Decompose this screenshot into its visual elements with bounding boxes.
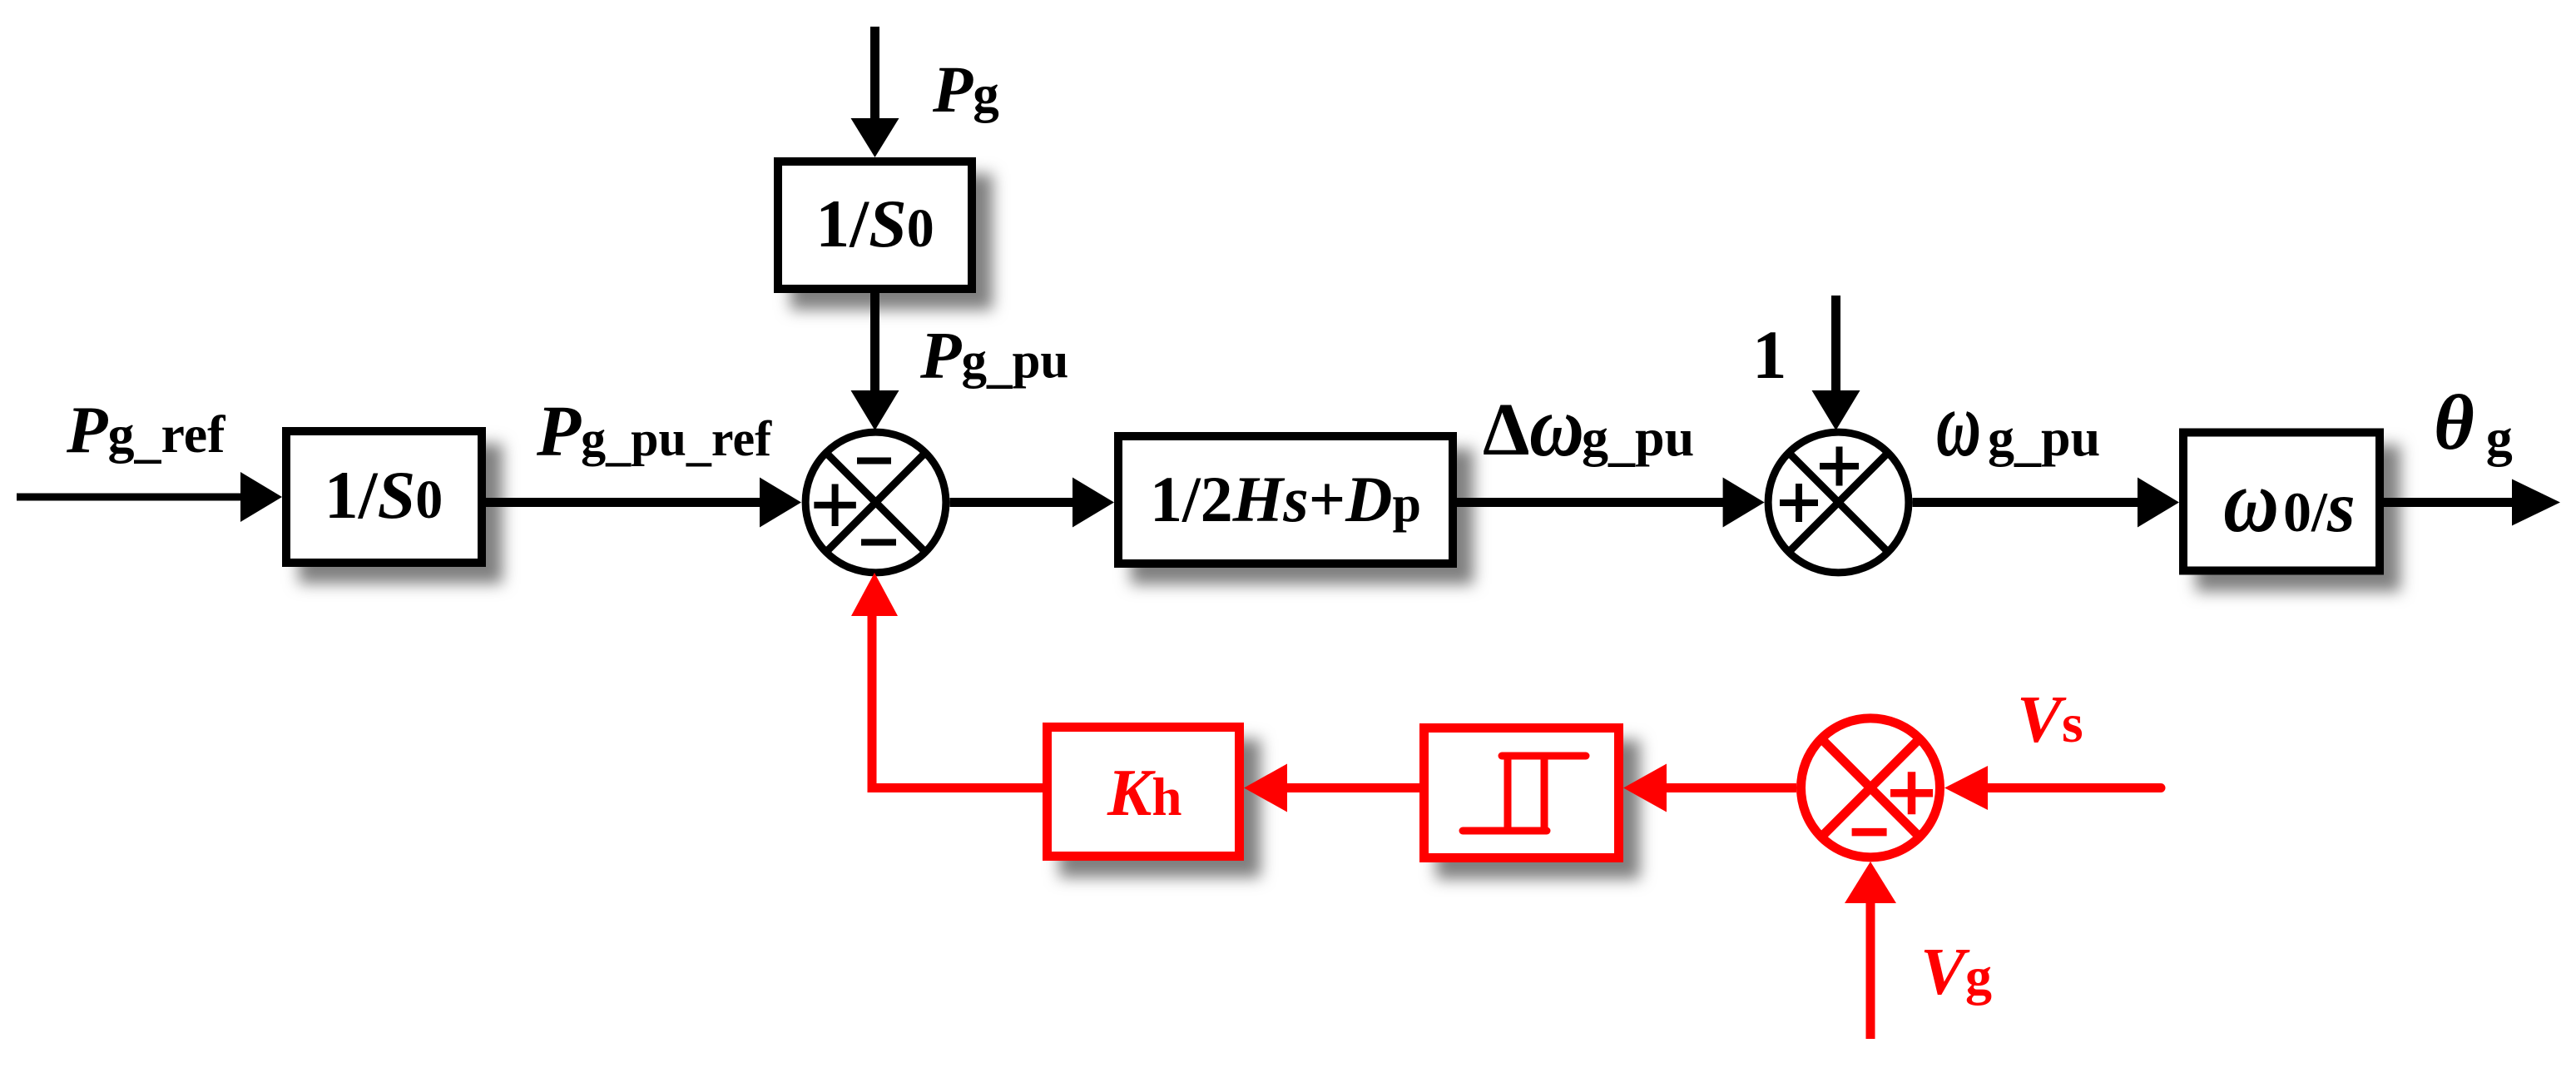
block 1/S0 (top)	[778, 161, 972, 289]
red summing junction S3 (Vs + / Vg -)	[1801, 718, 1940, 857]
red arrowhead into S1 bottom	[851, 573, 898, 616]
arrowhead into block omega0/s	[2138, 478, 2179, 528]
red wire S3 to relay	[1667, 783, 1796, 792]
svg-text:Pg_pu: Pg_pu	[919, 318, 1068, 394]
wire Pg_pu_ref	[486, 498, 762, 507]
svg-text:Pg: Pg	[932, 54, 999, 127]
wire Pg_pu	[870, 293, 879, 390]
red wire Vs input	[1988, 783, 2161, 792]
wire delta-omega g_pu	[1457, 498, 1725, 507]
svg-text:Δ: Δ	[1483, 389, 1529, 471]
arrowhead into block 1/S0 (left)	[240, 472, 282, 522]
svg-text:g_pu: g_pu	[1582, 408, 1694, 471]
svg-text:Pg_pu_ref: Pg_pu_ref	[536, 390, 772, 471]
arrowhead into summing junction S2 (top)	[1812, 390, 1860, 430]
red wire relay to Kh	[1287, 783, 1419, 792]
summing junction S2 (delta-omega + / 1 +)	[1768, 432, 1909, 573]
svg-text:θg: θg	[2434, 380, 2513, 467]
red arrowhead into relay right	[1623, 764, 1667, 812]
red wire feedback horizontal to Kh	[868, 783, 1043, 792]
svg-text:ω: ω	[2223, 452, 2279, 551]
wire S1 to 1/2Hs+Dp	[949, 498, 1075, 507]
svg-text:Vs: Vs	[2017, 682, 2083, 757]
arrowhead into block 1/S0 (top)	[851, 118, 899, 157]
wire omega g_pu	[1912, 498, 2139, 507]
wire Pg_ref input	[17, 494, 244, 501]
red block Kh	[1048, 728, 1240, 857]
arrowhead into summing junction S1	[760, 478, 801, 528]
block omega0/s (integrator)	[2183, 433, 2380, 571]
svg-text:Vg: Vg	[1920, 934, 1992, 1009]
summing junction S1 (Pg_pu_ref + / Pg_pu - / Kh -)	[805, 432, 946, 573]
relay hysteresis symbol	[1463, 756, 1586, 831]
svg-text:Kh: Kh	[1107, 757, 1182, 830]
wire constant 1 into S2	[1831, 296, 1840, 390]
svg-text:g_pu: g_pu	[1988, 408, 2100, 471]
block 1/2Hs+Dp	[1118, 436, 1453, 564]
svg-text:1/2Hs+Dp: 1/2Hs+Dp	[1150, 463, 1421, 535]
red arrowhead into Kh right	[1244, 764, 1287, 812]
red wire Vg input	[1866, 903, 1875, 1039]
arrowhead into summing junction S1 (top)	[851, 390, 899, 430]
svg-text:1: 1	[1752, 316, 1787, 393]
block 1/S0 (left)	[286, 431, 482, 563]
arrowhead into block 1/2Hs+Dp	[1073, 478, 1114, 528]
red arrowhead into S3 bottom	[1845, 862, 1896, 903]
arrowhead into summing junction S2	[1723, 478, 1765, 528]
red wire feedback vertical	[868, 616, 877, 792]
wire theta_g output	[2384, 498, 2518, 507]
svg-text:ω: ω	[1936, 373, 1981, 476]
arrowhead theta_g output	[2512, 479, 2560, 526]
red block relay (hysteresis)	[1424, 728, 1619, 858]
wire Pg input (top)	[870, 27, 879, 120]
red arrowhead into S3 right	[1944, 766, 1988, 810]
svg-text:Pg_ref: Pg_ref	[66, 392, 225, 468]
svg-text:ω: ω	[1529, 379, 1584, 474]
